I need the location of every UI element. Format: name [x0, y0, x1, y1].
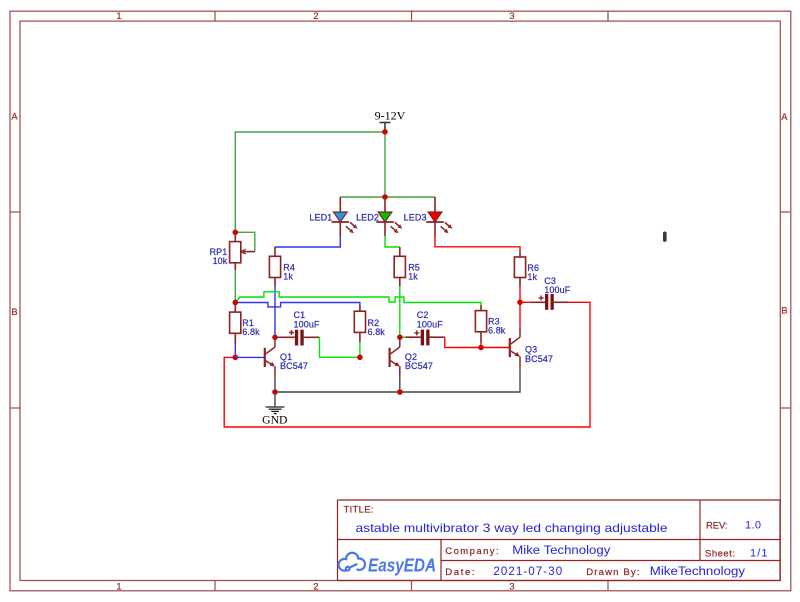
junction left node [233, 300, 239, 306]
EasyEDA logo registered mark [430, 562, 432, 564]
junction LED rail node [382, 194, 388, 200]
wire LED2 cathode to R5 [385, 236, 400, 247]
potentiometer RP1 [230, 232, 255, 270]
svg-text:Sheet:: Sheet: [705, 549, 735, 560]
svg-text:1: 1 [116, 581, 121, 591]
svg-text:LED2: LED2 [356, 213, 379, 223]
wire C2 to Q3 base node [445, 337, 481, 347]
resistor R3 [475, 305, 486, 343]
frame tick bottom 2 [411, 581, 413, 591]
wire left node blue to R2 [235, 303, 360, 307]
LED2 [376, 197, 402, 236]
svg-text:LED3: LED3 [404, 213, 427, 223]
frame tick left 2 [11, 407, 21, 409]
capacitor C3 [520, 294, 569, 310]
frame tick right 1 [780, 211, 790, 213]
transistor Q1 [265, 337, 275, 376]
frame tick left 1 [11, 211, 21, 213]
svg-text:A: A [11, 112, 18, 122]
svg-text:A: A [781, 112, 788, 122]
junction ground rail Q1 [272, 389, 278, 395]
svg-text:10k: 10k [213, 256, 228, 266]
wire R5 to Q2 collector [399, 286, 401, 337]
svg-text:2: 2 [313, 581, 318, 591]
capacitor C2 [400, 330, 445, 346]
wire Q3 emitter to ground rail [275, 368, 520, 392]
svg-text:Mike Technology: Mike Technology [512, 545, 610, 557]
svg-text:MikeTechnology: MikeTechnology [650, 566, 745, 578]
frame tick bottom 3 [607, 581, 609, 591]
svg-text:Drawn By:: Drawn By: [586, 567, 639, 578]
svg-text:6.8k: 6.8k [242, 327, 260, 337]
wire C1 to Q2 base node [320, 337, 360, 357]
stray mark [663, 232, 667, 242]
resistor R2 [354, 305, 365, 342]
svg-text:9-12V: 9-12V [375, 109, 406, 123]
power symbol 9-12V [380, 123, 391, 131]
EasyEDA logo cloud [339, 553, 365, 571]
ground [266, 392, 285, 414]
svg-text:2021-07-30: 2021-07-30 [493, 566, 562, 578]
frame tick top 2 [411, 11, 413, 21]
junction Q1 base node [233, 355, 239, 361]
svg-text:3: 3 [509, 11, 514, 21]
svg-text:100uF: 100uF [294, 319, 320, 329]
wire power horizontal to RP1 [235, 132, 385, 232]
wire R1 to Q1 base node [234, 344, 236, 358]
svg-text:EasyEDA: EasyEDA [368, 555, 436, 575]
junction Q3 base node [478, 345, 484, 351]
svg-text:1k: 1k [283, 272, 293, 282]
svg-text:1/1: 1/1 [750, 548, 768, 560]
transistor Q2 [390, 337, 400, 376]
svg-text:B: B [11, 307, 17, 317]
svg-text:1k: 1k [527, 272, 537, 282]
junction Q2 collector node [397, 334, 403, 340]
wire R3 to Q3 base node [480, 343, 482, 348]
wire power down to LED rail [384, 132, 386, 197]
LED1 [332, 197, 358, 236]
wire Q1 base [235, 356, 264, 358]
svg-text:6.8k: 6.8k [488, 326, 506, 336]
wire RP1 wiper loop [235, 232, 255, 251]
svg-text:100uF: 100uF [417, 319, 443, 329]
frame tick top 1 [214, 11, 216, 21]
svg-text:REV:: REV: [706, 520, 728, 531]
resistor R5 [394, 247, 405, 286]
svg-text:1k: 1k [408, 272, 418, 282]
wire Q3 collector red [519, 302, 521, 328]
capacitor C1 [275, 330, 320, 346]
frame tick right 2 [780, 407, 790, 409]
resistor R6 [514, 252, 525, 287]
svg-text:2: 2 [313, 11, 318, 21]
junction RP1 top [233, 230, 239, 236]
svg-text:BC547: BC547 [525, 354, 553, 364]
svg-text:Company:: Company: [445, 546, 498, 557]
junction Q1 collector node [272, 335, 278, 341]
svg-text:B: B [781, 306, 787, 316]
svg-text:LED1: LED1 [309, 213, 332, 223]
frame tick top 3 [607, 11, 609, 21]
wire R4 to Q1 collector [274, 286, 276, 337]
svg-text:GND: GND [262, 414, 287, 427]
svg-text:astable multivibrator 3 way le: astable multivibrator 3 way led changing… [356, 521, 668, 535]
svg-text:6.8k: 6.8k [368, 327, 386, 337]
svg-text:Date:: Date: [445, 567, 474, 578]
svg-text:BC547: BC547 [280, 361, 308, 371]
wire R3 node to Q3 base [481, 347, 510, 349]
wire Q1 emitter to ground rail [274, 377, 276, 393]
wire R2 to Q2 base node [359, 342, 361, 357]
resistor R1 [230, 303, 241, 344]
wire LED3 cathode to R6 [435, 237, 520, 252]
LED3 [426, 197, 452, 237]
wire LED anode rail [340, 196, 435, 198]
wire R6 to Q3 collector node [519, 286, 521, 302]
transistor Q3 [510, 328, 520, 368]
resistor R4 [269, 247, 280, 286]
junction Q2 base node [357, 355, 363, 361]
wire RP1 bottom to left node [234, 270, 236, 303]
wire LED1 cathode to R4 [275, 236, 340, 247]
svg-text:1: 1 [116, 11, 121, 21]
svg-text:3: 3 [509, 581, 514, 591]
junction Q3 collector node [517, 300, 523, 306]
wire left node green to R3 [235, 292, 481, 305]
frame tick bottom 1 [214, 581, 216, 591]
svg-text:100uF: 100uF [544, 285, 570, 295]
svg-text:BC547: BC547 [405, 361, 433, 371]
svg-text:TITLE:: TITLE: [344, 505, 374, 516]
junction ground rail Q2 [397, 389, 403, 395]
title block outline [338, 500, 781, 581]
svg-text:1.0: 1.0 [745, 520, 761, 532]
junction power node [382, 129, 388, 135]
svg-text:Q3: Q3 [525, 344, 537, 354]
wire C3 to right rail [224, 302, 590, 427]
wire Q2 emitter to ground rail [399, 377, 401, 393]
